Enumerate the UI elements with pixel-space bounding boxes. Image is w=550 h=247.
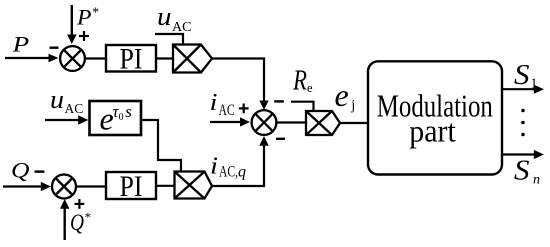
wire JQ to PI controller 2 (76, 185, 106, 187)
wire P input with arrowhead (5, 54, 59, 62)
svg-text:PI: PI (120, 43, 143, 76)
svg-text:PI: PI (120, 170, 143, 203)
plus sign at P summing junction (79, 31, 89, 41)
delay block e^(tau0 s) (90, 101, 142, 137)
modulation part block (368, 61, 502, 174)
svg-text:iAC: iAC (210, 90, 235, 119)
svg-text:P*: P* (76, 5, 99, 30)
svg-text:part: part (409, 112, 456, 148)
minus sign at Q summing junction (35, 170, 45, 172)
wire M3 to modulation part (340, 122, 368, 124)
plus sign at Q summing junction (75, 199, 85, 209)
svg-text:Q*: Q* (70, 210, 91, 236)
wire Q* reference input with arrowhead (60, 199, 69, 240)
wire u_AC into M1 (underline and drop) (155, 34, 183, 45)
svg-text:τ0s: τ0s (113, 102, 133, 123)
PI controller block 1 (106, 43, 156, 76)
ellipsis dots between outputs (521, 109, 525, 137)
minus sign at J2 top input (274, 100, 284, 102)
svg-text:iAC,q: iAC,q (210, 154, 246, 181)
multiplier M1 (173, 45, 212, 73)
wire PI1 to multiplier M1 (156, 57, 173, 59)
summing junction JQ (Q loop) (52, 175, 76, 199)
wire u_AC into delay block with arrowhead (45, 115, 89, 124)
multiplier M3 (R_e gain) (306, 111, 340, 135)
wire PI2 to multiplier M2 (156, 185, 175, 187)
svg-text:Re: Re (292, 65, 313, 96)
summing junction J1 (P loop) (60, 46, 85, 71)
wire i_AC,q feedback up into J2 with arrowhead (212, 136, 269, 186)
wire i_AC input with arrowhead (210, 117, 250, 126)
multiplier M2 (175, 172, 213, 199)
wire Sn output with arrowhead (502, 150, 544, 159)
wire Q input with arrowhead (3, 182, 51, 191)
svg-text:P: P (11, 31, 29, 56)
wire P* reference input with arrowhead (67, 5, 76, 44)
svg-text:ej: ej (335, 77, 356, 114)
svg-text:S1: S1 (514, 59, 537, 91)
wire delay block to M2 top input (141, 120, 181, 172)
PI controller block 2 (106, 170, 156, 203)
plus sign at J2 left input (239, 104, 249, 114)
svg-text:Sn: Sn (514, 155, 540, 188)
minus sign at J2 bottom input (276, 138, 285, 140)
wire M1 output to summing junction J2 (right then down, arrowhead) (212, 59, 269, 110)
wire R_e into M3 (underline and drop) (291, 102, 314, 111)
minus sign at P summing junction (50, 47, 59, 49)
svg-text:Q: Q (11, 158, 30, 183)
svg-text:uAC: uAC (157, 2, 191, 35)
svg-text:uAC: uAC (50, 85, 83, 116)
summing junction J2 (current loop) (252, 110, 277, 135)
wire J1 to PI controller 1 (85, 57, 106, 59)
wire J2 to multiplier M3 (277, 121, 307, 123)
wire S1 output with arrowhead (502, 85, 544, 94)
